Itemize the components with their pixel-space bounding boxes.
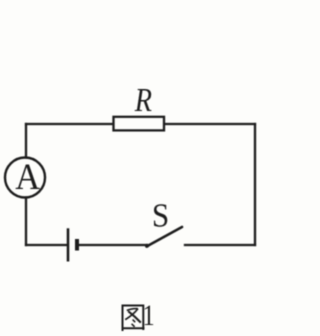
- svg-text:1: 1: [143, 298, 155, 331]
- svg-text:A: A: [15, 156, 40, 197]
- label A (ammeter): [15, 156, 40, 197]
- wire top-right horizontal segment: [165, 123, 256, 125]
- battery B1 long plate (positive): [67, 228, 70, 261]
- wire switch-to-right segment: [185, 244, 255, 246]
- wire left vertical lower segment: [25, 198, 27, 246]
- svg-text:R: R: [134, 80, 152, 118]
- switch S blade: [147, 227, 183, 247]
- label S (switch): [152, 197, 169, 234]
- wire battery-to-switch segment: [79, 244, 147, 246]
- label R value: [134, 80, 152, 118]
- wire left vertical upper segment: [25, 124, 27, 158]
- switch S pivot junction: [145, 244, 149, 248]
- ammeter A1 circle: [5, 158, 45, 198]
- resistor R1 box: [114, 117, 165, 131]
- wire top-left horizontal segment: [26, 123, 113, 125]
- svg-text:S: S: [152, 197, 169, 234]
- wire right vertical segment: [254, 124, 256, 245]
- caption numeral 1: [143, 298, 155, 331]
- wire bottom-left segment: [26, 244, 67, 246]
- battery B1 short plate (negative): [75, 239, 79, 251]
- caption glyph 图 box: [122, 305, 145, 332]
- caption glyph 冬 inside 图: [127, 309, 138, 311]
